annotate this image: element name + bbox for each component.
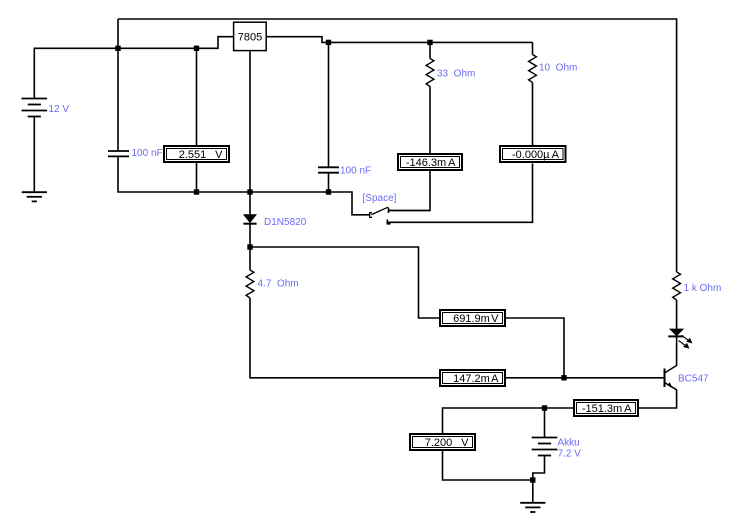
wire top rail to R4 top (118, 19, 677, 272)
svg-text:V: V (461, 437, 469, 449)
resistor R2 10 Ohm (529, 55, 537, 83)
wire M1 bottom to ground rail (196, 163, 198, 192)
LED D2 (668, 329, 691, 348)
switch S1 throw contact 2 (387, 220, 390, 224)
svg-text:12 V: 12 V (49, 104, 70, 115)
svg-text:-151.3m: -151.3m (582, 403, 622, 415)
node junction M1 bottom on ground rail (194, 189, 199, 194)
transistor Q1 BC547 (665, 366, 677, 390)
node junction C2 bottom on ground rail (326, 189, 331, 194)
svg-text:7805: 7805 (238, 31, 262, 43)
resistor R4 1 k Ohm (673, 272, 681, 300)
node junction input rail left (115, 46, 120, 51)
node junction node C (542, 405, 547, 410)
svg-text:-146.3m: -146.3m (406, 157, 446, 169)
capacitor C1 100 nF (108, 151, 129, 156)
svg-text:D1N5820: D1N5820 (264, 217, 307, 228)
wire M2 bottom to switch throw 1 (389, 171, 431, 211)
regulator U1 7805 (234, 22, 267, 50)
voltmeter M7 7.200 V (410, 434, 475, 450)
ground GND1 (22, 192, 47, 201)
svg-text:A: A (552, 149, 560, 161)
svg-text:100 nF: 100 nF (340, 166, 371, 177)
ammeter M5 147.2m A (440, 370, 505, 386)
wire switch throw 1 to M2 branch (389, 210, 431, 212)
ammeter M3 -0.000u A (500, 146, 566, 162)
svg-text:691.9m: 691.9m (453, 313, 490, 325)
wire C1 bottom along ground rail to switch common (118, 156, 370, 215)
svg-text:4.7 Ohm: 4.7 Ohm (258, 279, 299, 290)
resistor R1 33 Ohm (426, 59, 434, 87)
wire M3 bottom to switch throw 2 (387, 164, 532, 223)
wire output rail to R1 top (429, 42, 431, 58)
wire M6 left to M7 top (443, 408, 574, 433)
voltmeter M4 691.9m V (440, 310, 505, 326)
wire R2 bottom to M3 top (532, 83, 534, 146)
wire node A to M4 left (250, 247, 439, 318)
wire M7 bottom to ground node (443, 451, 533, 480)
wire node C to battery V2 plus (544, 408, 546, 438)
wire battery V1 plus to 7805 input (34, 37, 233, 99)
node junction R1 branch (427, 40, 432, 45)
node junction node A (247, 244, 252, 249)
svg-text:147.2m: 147.2m (453, 373, 490, 385)
svg-text:2.551: 2.551 (179, 149, 207, 161)
wire battery V2 minus to ground (533, 456, 545, 503)
svg-text:BC547: BC547 (678, 374, 709, 385)
voltmeter M1 2.551 V (164, 146, 229, 162)
wire Q1 emitter to M6 right (639, 390, 677, 409)
ammeter M2 -146.3m A (398, 154, 462, 170)
wire 7805 output rail (267, 37, 533, 43)
wire left rail to C1 top (117, 19, 119, 151)
svg-text:V: V (215, 149, 223, 161)
wire LED cathode to Q1 collector (676, 337, 678, 366)
wire output rail to R2 top (532, 42, 534, 54)
wire D1 cathode to R3 top (249, 224, 251, 270)
svg-text:Akku: Akku (558, 437, 580, 448)
node junction D1 branch on ground rail (247, 189, 252, 194)
node junction battery V2 ground node (530, 477, 535, 482)
wire 7805 GND pin to D1 anode (249, 51, 251, 214)
wire output rail to C2 top (328, 42, 330, 167)
node junction C2 branch (326, 40, 331, 45)
wire R1 bottom to M2 top (429, 87, 431, 154)
diode D1 D1N5820 (243, 214, 257, 224)
svg-text:100 nF: 100 nF (132, 148, 163, 159)
svg-text:7.200: 7.200 (425, 437, 453, 449)
ground GND2 (520, 503, 545, 512)
svg-text:A: A (624, 403, 632, 415)
node junction node B (561, 375, 566, 380)
svg-text:A: A (448, 157, 456, 169)
wire C2 bottom to ground rail (328, 173, 330, 192)
capacitor C2 100 nF (318, 167, 339, 172)
svg-text:V: V (491, 313, 499, 325)
svg-text:10 Ohm: 10 Ohm (539, 63, 577, 74)
svg-text:A: A (491, 373, 499, 385)
svg-text:33 Ohm: 33 Ohm (437, 69, 475, 80)
wire R4 bottom to LED anode (676, 300, 678, 329)
svg-text:1 k Ohm: 1 k Ohm (684, 283, 722, 294)
svg-text:[Space]: [Space] (363, 193, 397, 204)
svg-text:7.2 V: 7.2 V (558, 449, 582, 460)
switch S1 [Space] lever (370, 207, 388, 217)
wire input node to M1 top (196, 48, 198, 145)
battery V2 Akku 7.2 V (532, 438, 558, 456)
switch S1 throw contact 1 (388, 208, 390, 214)
wire M5 right to Q1 base (506, 377, 665, 379)
resistor R3 4.7 Ohm (246, 270, 254, 298)
wire R3 bottom to M5 left (250, 298, 439, 378)
wire battery V1 minus to ground (33, 116, 35, 192)
node junction M1 top branch (194, 46, 199, 51)
ammeter M6 -151.3m A (574, 400, 638, 416)
svg-text:-0.000µ: -0.000µ (512, 149, 550, 161)
battery V1 12 V (22, 99, 48, 117)
wire M4 right to node B (506, 318, 564, 378)
